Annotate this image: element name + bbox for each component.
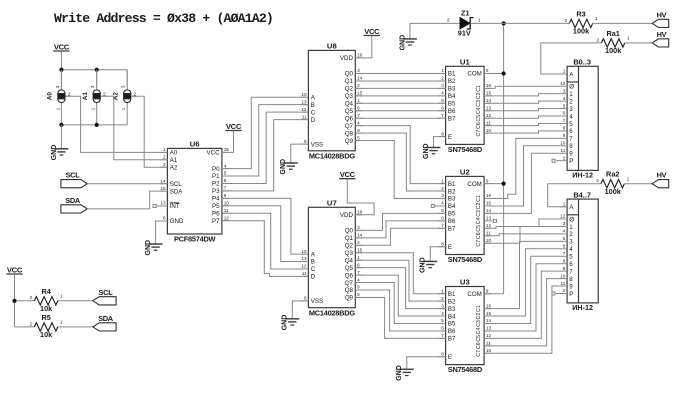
IC U6 PCF8574DW xyxy=(167,148,222,234)
svg-text:3: 3 xyxy=(121,85,126,88)
svg-text:9: 9 xyxy=(563,266,566,271)
tube B4..7 pin P (nc) xyxy=(556,293,567,295)
svg-text:B3: B3 xyxy=(448,196,456,203)
wire U7 Q5 to U3 B3 xyxy=(355,268,445,309)
tube B4..7 pin digit 8 xyxy=(560,278,568,280)
net flag HV (R3) xyxy=(652,19,669,27)
svg-text:E: E xyxy=(448,354,452,361)
svg-text:11: 11 xyxy=(486,230,491,235)
svg-text:Q5: Q5 xyxy=(345,265,354,272)
svg-text:GND: GND xyxy=(396,365,403,381)
wire U8 VSS to ground xyxy=(291,144,309,163)
wire U3 C1 to tube2 digit3 xyxy=(484,241,559,308)
svg-text:MC14028BDG: MC14028BDG xyxy=(309,151,355,160)
svg-text:B7: B7 xyxy=(448,226,456,233)
svg-text:3: 3 xyxy=(563,88,566,93)
svg-text:Ø: Ø xyxy=(569,84,574,91)
wire U6 P4 to U7 A xyxy=(222,198,309,254)
svg-text:6: 6 xyxy=(569,261,573,268)
wire R5 to SDA flag xyxy=(58,326,93,328)
tube B4..7 pin digit 9 xyxy=(560,285,568,287)
svg-text:2: 2 xyxy=(597,37,600,42)
tube B0..3 pin digit 1 xyxy=(560,93,568,95)
svg-text:11: 11 xyxy=(561,281,566,286)
svg-text:VSS: VSS xyxy=(311,141,323,148)
svg-text:Q9: Q9 xyxy=(345,138,354,145)
svg-text:2: 2 xyxy=(596,178,599,183)
svg-text:Q4: Q4 xyxy=(345,101,354,108)
svg-text:7: 7 xyxy=(224,186,227,191)
wire jumper top rail xyxy=(61,69,127,71)
wire VCC to U6 pin16 xyxy=(222,131,234,153)
wire U7 Q9 to U3 B7 xyxy=(355,297,445,338)
svg-text:1: 1 xyxy=(441,68,444,73)
svg-text:15: 15 xyxy=(486,311,492,316)
svg-text:Q8: Q8 xyxy=(345,287,354,294)
svg-text:1: 1 xyxy=(60,320,63,325)
jumper A0 xyxy=(60,70,62,91)
svg-text:16: 16 xyxy=(224,147,230,152)
wire U6 P1 to U8 B xyxy=(222,105,309,176)
svg-text:GND: GND xyxy=(420,257,427,273)
svg-text:10: 10 xyxy=(560,273,566,278)
wire U2 C1 to tube1 digit7 xyxy=(484,138,559,198)
svg-text:VCC: VCC xyxy=(7,265,23,274)
svg-text:Q4: Q4 xyxy=(345,257,354,264)
tube B4..7 pin digit 7 xyxy=(560,270,568,272)
svg-text:8: 8 xyxy=(304,296,307,301)
wire R3 to HV xyxy=(593,22,652,24)
svg-text:P4: P4 xyxy=(212,196,220,203)
svg-text:2: 2 xyxy=(447,17,450,22)
svg-text:8: 8 xyxy=(441,352,444,357)
svg-text:A2: A2 xyxy=(170,164,178,171)
svg-text:U8: U8 xyxy=(327,42,338,51)
svg-text:B: B xyxy=(311,259,315,266)
wire jumper bottom rail xyxy=(61,124,127,126)
svg-text:P0: P0 xyxy=(212,166,220,173)
wire SDA to U6 xyxy=(87,191,167,209)
svg-text:4: 4 xyxy=(569,246,573,253)
svg-text:6: 6 xyxy=(224,178,227,183)
svg-text:C4: C4 xyxy=(476,107,482,114)
svg-text:1: 1 xyxy=(121,107,126,110)
wire A2 pin2 to U6 A2 xyxy=(131,96,167,167)
wire U7 Q6 to U3 B4 xyxy=(355,275,445,316)
svg-text:INT: INT xyxy=(170,203,180,210)
svg-text:1: 1 xyxy=(357,98,360,103)
svg-text:13: 13 xyxy=(301,99,307,104)
wire U3 C6 to tube2 digit8 xyxy=(484,279,559,346)
svg-text:B3: B3 xyxy=(448,86,456,93)
wire U1 C5 to tube1 digit4 xyxy=(484,116,559,118)
svg-text:VSS: VSS xyxy=(311,298,323,305)
svg-text:7: 7 xyxy=(563,118,566,123)
svg-text:14: 14 xyxy=(357,76,363,81)
svg-text:U6: U6 xyxy=(190,140,200,149)
svg-text:2: 2 xyxy=(569,231,573,238)
wire U6 P5 to U7 B xyxy=(222,206,309,262)
svg-text:2: 2 xyxy=(441,296,444,301)
svg-text:7: 7 xyxy=(569,268,573,275)
svg-text:2: 2 xyxy=(563,155,566,160)
svg-text:B2: B2 xyxy=(448,78,456,85)
resistor Ra1 100k xyxy=(601,39,624,47)
svg-text:1: 1 xyxy=(357,255,360,260)
svg-text:C3: C3 xyxy=(476,320,482,327)
svg-text:C6: C6 xyxy=(476,232,482,239)
net flag SDA (pullup) xyxy=(93,323,116,331)
svg-text:8: 8 xyxy=(163,216,166,221)
svg-text:B4..7: B4..7 xyxy=(573,190,591,199)
svg-text:C6: C6 xyxy=(476,122,482,129)
IC U8 MC14028BDG xyxy=(308,50,355,150)
svg-text:B5: B5 xyxy=(448,321,456,328)
wire U8 Q7 to U2 B1 xyxy=(355,126,445,184)
wire U8 Q5 to U1 B6 xyxy=(355,110,445,112)
svg-text:P: P xyxy=(569,291,573,298)
wire U8 Q2 to U1 B3 xyxy=(355,87,445,89)
svg-text:Ra1: Ra1 xyxy=(606,29,619,38)
svg-text:Q2: Q2 xyxy=(345,86,354,93)
svg-text:Q7: Q7 xyxy=(345,280,354,287)
svg-text:2: 2 xyxy=(563,288,566,293)
svg-text:1: 1 xyxy=(569,91,573,98)
svg-text:R3: R3 xyxy=(576,9,585,18)
svg-text:2: 2 xyxy=(441,186,444,191)
svg-text:12: 12 xyxy=(224,215,230,220)
svg-text:SDA: SDA xyxy=(98,314,114,323)
svg-text:14: 14 xyxy=(486,318,492,323)
svg-text:MC14028BDG: MC14028BDG xyxy=(309,308,355,317)
svg-text:E: E xyxy=(448,244,452,251)
wire A0 pin2 to U6 A0 xyxy=(65,96,167,152)
svg-text:8: 8 xyxy=(304,139,307,144)
svg-text:12: 12 xyxy=(486,113,492,118)
svg-text:B5: B5 xyxy=(448,211,456,218)
svg-text:10k: 10k xyxy=(40,330,53,339)
svg-text:16: 16 xyxy=(486,193,492,198)
svg-text:10: 10 xyxy=(224,201,230,206)
svg-text:2: 2 xyxy=(357,83,360,88)
wire SCL to U6 xyxy=(87,183,167,185)
wire U7 Q3 to U3 B1 xyxy=(355,253,445,294)
wire U2 E to ground xyxy=(430,247,445,262)
wire Ra1 to HV xyxy=(625,42,652,44)
svg-text:5: 5 xyxy=(357,292,360,297)
svg-text:SN75468D: SN75468D xyxy=(448,145,483,154)
svg-text:Q3: Q3 xyxy=(345,250,354,257)
svg-text:P6: P6 xyxy=(212,210,220,217)
nixie tube B4..7 IN-12 xyxy=(567,199,598,303)
ground (U1 E) xyxy=(427,147,441,149)
svg-text:4: 4 xyxy=(441,91,444,96)
svg-text:VCC: VCC xyxy=(340,170,356,179)
wire U6 P0 to U8 A xyxy=(222,97,309,168)
svg-text:U2: U2 xyxy=(460,168,470,177)
svg-text:7: 7 xyxy=(441,223,444,228)
tube B0..3 pin P (nc) xyxy=(556,160,567,162)
wire A1 pin2 to U6 A1 xyxy=(101,96,168,160)
svg-text:3: 3 xyxy=(90,85,95,88)
svg-text:SCL: SCL xyxy=(170,181,183,188)
wire VCC rail to R4/R5 xyxy=(14,274,16,327)
tube B0..3 pin digit 0 xyxy=(560,85,568,87)
svg-text:SN75468D: SN75468D xyxy=(448,365,483,374)
wire COM chain vertical xyxy=(503,23,505,293)
svg-text:SDA: SDA xyxy=(170,188,184,195)
wire U7 Q2 to U2 B7 xyxy=(355,228,445,245)
wire U2 C6 to tube2 digit2 xyxy=(484,234,559,236)
svg-text:6: 6 xyxy=(569,128,573,135)
svg-text:3: 3 xyxy=(55,85,60,88)
svg-text:VDD: VDD xyxy=(340,55,354,62)
tube B4..7 pin digit 1 xyxy=(560,225,568,227)
svg-text:4: 4 xyxy=(563,229,566,234)
svg-text:5: 5 xyxy=(563,103,566,108)
svg-text:9: 9 xyxy=(486,68,489,73)
wire U8 Q6 to U1 B7 xyxy=(355,117,445,119)
svg-text:13: 13 xyxy=(160,201,166,206)
svg-text:B0..3: B0..3 xyxy=(573,58,591,67)
svg-text:U1: U1 xyxy=(460,58,471,67)
tube B4..7 pin digit 3 xyxy=(560,240,568,242)
svg-text:GND: GND xyxy=(399,35,406,51)
tube B0..3 pin digit 7 xyxy=(560,137,568,139)
wire U8 Q9 to U2 B3 xyxy=(355,141,445,199)
svg-text:9: 9 xyxy=(486,288,489,293)
svg-text:11: 11 xyxy=(302,114,307,119)
wire VCC to U8 VDD xyxy=(355,36,372,58)
node COM junctions xyxy=(502,21,506,25)
svg-text:16: 16 xyxy=(486,303,492,308)
svg-text:11: 11 xyxy=(224,208,229,213)
svg-text:8: 8 xyxy=(563,258,566,263)
svg-text:6: 6 xyxy=(441,216,444,221)
svg-text:5: 5 xyxy=(441,208,444,213)
svg-text:A1: A1 xyxy=(82,92,89,101)
svg-text:P2: P2 xyxy=(212,181,220,188)
svg-text:7: 7 xyxy=(441,333,444,338)
tube B0..3 pin digit 3 xyxy=(560,108,568,110)
svg-text:B4: B4 xyxy=(448,93,456,100)
svg-text:7: 7 xyxy=(569,136,573,143)
svg-text:1: 1 xyxy=(91,107,96,110)
svg-text:B: B xyxy=(311,102,315,109)
svg-text:Q6: Q6 xyxy=(345,272,354,279)
svg-text:8: 8 xyxy=(563,126,566,131)
wire U2 C7 to tube2 digit1 xyxy=(484,226,559,243)
tube B0..3 pin digit 9 xyxy=(560,152,568,154)
wire U1 C4 to tube1 digit3 xyxy=(484,109,559,111)
svg-text:10: 10 xyxy=(301,249,307,254)
svg-text:100k: 100k xyxy=(605,187,622,196)
svg-text:VCC: VCC xyxy=(364,27,380,36)
svg-text:Q5: Q5 xyxy=(345,108,354,115)
wire VCC to jumper rail xyxy=(60,51,62,87)
wire R4 to SCL flag xyxy=(58,300,93,302)
svg-text:15: 15 xyxy=(160,186,166,191)
svg-text:1: 1 xyxy=(595,16,598,21)
wire U6 P6 to U7 C xyxy=(222,213,309,269)
svg-text:91V: 91V xyxy=(458,29,471,38)
svg-text:A0: A0 xyxy=(170,150,178,157)
node junction top rail xyxy=(59,68,63,72)
svg-text:1: 1 xyxy=(441,178,444,183)
wire U1 C7 to tube1 digit6 xyxy=(484,131,559,133)
svg-text:9: 9 xyxy=(486,178,489,183)
ground (U2 E) xyxy=(423,260,437,262)
svg-text:5: 5 xyxy=(224,171,227,176)
svg-text:P1: P1 xyxy=(212,173,220,180)
tube B0..3 pin digit 6 xyxy=(560,130,568,132)
svg-text:A0: A0 xyxy=(47,92,54,101)
svg-text:ИН-12: ИН-12 xyxy=(572,171,593,180)
svg-text:16: 16 xyxy=(486,83,492,88)
svg-text:Q1: Q1 xyxy=(345,78,354,85)
svg-text:1: 1 xyxy=(563,69,566,74)
svg-text:13: 13 xyxy=(486,216,492,221)
svg-text:2: 2 xyxy=(163,155,166,160)
svg-text:6: 6 xyxy=(441,105,444,110)
wire U1 E to ground xyxy=(434,137,446,148)
svg-text:11: 11 xyxy=(486,120,491,125)
svg-text:4: 4 xyxy=(563,96,566,101)
svg-text:Ra2: Ra2 xyxy=(606,170,619,179)
net flag SCL (pullup) xyxy=(93,297,116,305)
wire U1 C6 to tube1 digit5 xyxy=(484,123,559,125)
resistor R4 10k xyxy=(34,297,57,305)
svg-text:C2: C2 xyxy=(476,203,482,210)
svg-text:ИН-12: ИН-12 xyxy=(572,303,593,312)
svg-text:6: 6 xyxy=(357,262,360,267)
svg-text:8: 8 xyxy=(569,276,573,283)
IC U1 SN75468D xyxy=(446,66,485,144)
svg-text:3: 3 xyxy=(357,68,360,73)
svg-text:Write Address = Øx38 + (AØA1A2: Write Address = Øx38 + (AØA1A2) xyxy=(54,11,273,26)
ground (U3 E) xyxy=(400,368,414,370)
svg-text:B5: B5 xyxy=(448,101,456,108)
svg-text:9: 9 xyxy=(224,193,227,198)
svg-text:10: 10 xyxy=(486,348,492,353)
svg-text:C3: C3 xyxy=(476,100,482,107)
svg-text:C1: C1 xyxy=(476,305,482,312)
wire U2 C5 to tube2 digit0 xyxy=(484,219,559,228)
svg-text:C1: C1 xyxy=(476,85,482,92)
svg-text:7: 7 xyxy=(357,270,360,275)
resistor R5 10k xyxy=(34,323,57,331)
wire U7 Q1 to U2 B6 xyxy=(355,221,445,238)
svg-text:12: 12 xyxy=(486,333,492,338)
wire VCC to U7 VDD xyxy=(347,179,374,215)
svg-text:2: 2 xyxy=(30,321,33,326)
svg-text:C1: C1 xyxy=(476,195,482,202)
svg-text:B1: B1 xyxy=(448,291,456,298)
wire U6 GND pin to ground xyxy=(156,221,168,244)
svg-text:5: 5 xyxy=(569,254,573,261)
svg-text:8: 8 xyxy=(441,241,444,246)
wire U8 Q0 to U1 B1 xyxy=(355,73,445,75)
tube B0..3 pin digit 8 xyxy=(560,145,568,147)
svg-text:3: 3 xyxy=(357,225,360,230)
jumper A1 xyxy=(96,70,98,91)
svg-text:C7: C7 xyxy=(476,350,482,357)
svg-text:Q2: Q2 xyxy=(345,243,354,250)
svg-text:14: 14 xyxy=(486,208,492,213)
net flag HV (Ra1) xyxy=(652,39,669,47)
svg-text:4: 4 xyxy=(224,163,227,168)
net flag SCL (input) xyxy=(61,180,87,188)
wire U8 Q4 to U1 B5 xyxy=(355,102,445,104)
wire U3 C2 to tube2 digit4 xyxy=(484,249,559,316)
zener Z1 91V xyxy=(460,17,470,29)
svg-text:GND: GND xyxy=(170,218,184,225)
svg-text:14: 14 xyxy=(160,178,166,183)
svg-text:5: 5 xyxy=(569,121,573,128)
svg-text:5: 5 xyxy=(441,318,444,323)
svg-text:6: 6 xyxy=(441,326,444,331)
svg-text:GND: GND xyxy=(282,315,289,331)
svg-text:12: 12 xyxy=(486,223,492,228)
svg-text:C4: C4 xyxy=(476,328,482,335)
wire U6 P7 to U7 D xyxy=(222,221,309,277)
svg-text:9: 9 xyxy=(563,133,566,138)
svg-text:10: 10 xyxy=(486,128,492,133)
wire Ra2 to HV xyxy=(625,183,653,185)
svg-text:C6: C6 xyxy=(476,342,482,349)
svg-text:16: 16 xyxy=(357,53,363,58)
svg-text:Q3: Q3 xyxy=(345,93,354,100)
svg-text:10: 10 xyxy=(301,92,307,97)
tube B0..3 pin digit 4 xyxy=(560,115,568,117)
svg-text:12: 12 xyxy=(560,214,566,219)
svg-text:2: 2 xyxy=(565,18,568,23)
svg-text:Q8: Q8 xyxy=(345,130,354,137)
svg-text:3: 3 xyxy=(441,193,444,198)
wire U1 C2 to tube1 digit1 xyxy=(484,94,559,96)
svg-text:C3: C3 xyxy=(476,210,482,217)
svg-text:5: 5 xyxy=(441,98,444,103)
svg-text:13: 13 xyxy=(486,326,492,331)
svg-text:R4: R4 xyxy=(41,287,51,296)
wire U3 C7 to tube2 digit9 xyxy=(484,286,559,353)
wire U3 C5 to tube2 digit7 xyxy=(484,271,559,338)
wire U2 C2 to tube1 digit8 xyxy=(484,146,559,206)
tube B4..7 pin digit 0 xyxy=(560,218,568,220)
svg-text:5: 5 xyxy=(563,236,566,241)
svg-text:15: 15 xyxy=(486,201,492,206)
wire U7 Q0 to U2 B5 xyxy=(355,213,445,230)
svg-text:COM: COM xyxy=(467,181,481,188)
wire U1 C1 to tube1 digit0 xyxy=(484,86,559,88)
wire U7 Q4 to U3 B2 xyxy=(355,260,445,301)
svg-text:GND: GND xyxy=(280,159,287,175)
svg-text:Ø: Ø xyxy=(569,216,574,223)
svg-text:U3: U3 xyxy=(460,278,470,287)
ground (U6) xyxy=(149,243,163,245)
svg-text:B6: B6 xyxy=(448,108,456,115)
svg-text:C2: C2 xyxy=(476,92,482,99)
svg-text:B7: B7 xyxy=(448,115,456,122)
ground (jumpers) xyxy=(55,148,69,150)
svg-text:3: 3 xyxy=(569,106,573,113)
svg-text:10: 10 xyxy=(560,141,566,146)
wire U7 Q8 to U3 B6 xyxy=(355,290,445,331)
tube B4..7 pin digit 2 xyxy=(560,233,568,235)
svg-text:C7: C7 xyxy=(476,240,482,247)
svg-text:11: 11 xyxy=(561,148,566,153)
svg-text:Q1: Q1 xyxy=(345,235,354,242)
